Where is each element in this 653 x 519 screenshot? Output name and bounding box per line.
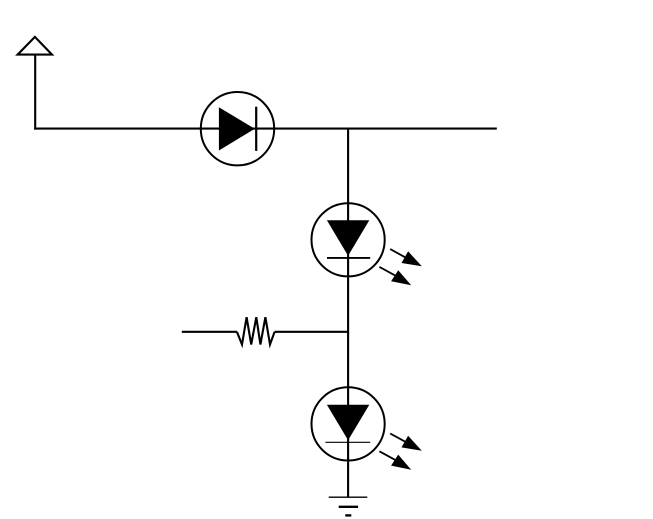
wire xyxy=(34,55,36,130)
LED D2 light arrow 2 xyxy=(379,267,411,285)
wire xyxy=(347,462,349,498)
wire xyxy=(34,128,201,130)
diode D1 xyxy=(200,92,275,165)
wire xyxy=(275,128,348,130)
wire xyxy=(347,128,349,203)
LED D3 light arrow 1 xyxy=(390,434,422,451)
LED D2 light arrow 1 xyxy=(390,249,422,266)
LED D2 xyxy=(312,202,422,285)
wire xyxy=(347,332,349,388)
LED D3 xyxy=(312,386,422,469)
wire xyxy=(347,277,349,333)
LED D3 light arrow 2 xyxy=(379,451,411,469)
power symbol VCC xyxy=(18,37,52,55)
resistor R1 xyxy=(182,317,348,344)
ground xyxy=(329,497,368,515)
wire xyxy=(348,128,497,130)
